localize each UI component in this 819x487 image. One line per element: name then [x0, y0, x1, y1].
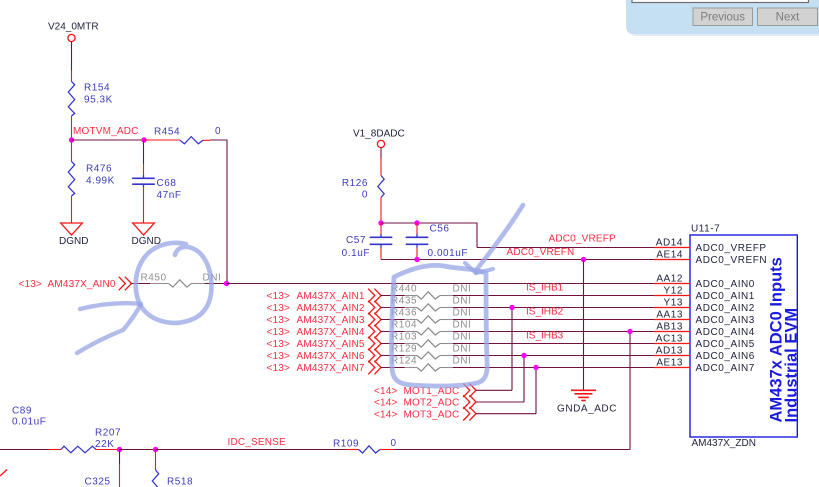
wire AM437X_AIN1 connector to R440 [381, 295, 417, 297]
svg-text:R109: R109 [333, 439, 359, 450]
svg-text:AM437X_AIN1: AM437X_AIN1 [297, 291, 365, 302]
wire AM437X_AIN2 connector to R435 [381, 307, 417, 309]
svg-text:C56: C56 [430, 224, 450, 235]
svg-text:ADC0_AIN5: ADC0_AIN5 [696, 339, 755, 350]
wire AM437X_AIN7 connector to R124 [381, 367, 417, 369]
junction AIN0 [224, 281, 229, 286]
wire R126 to VREF node [380, 198, 382, 224]
wire R518 node to R109 [156, 449, 359, 451]
svg-text:AD14: AD14 [656, 238, 683, 249]
capacitor C56 [406, 223, 468, 260]
svg-text:AB13: AB13 [656, 322, 683, 333]
capacitor C89 label [12, 406, 46, 428]
net label ADC0_VREFN [507, 247, 575, 258]
svg-text:C325: C325 [85, 477, 111, 487]
svg-text:0: 0 [362, 190, 368, 201]
power symbol V24_0MTR [48, 22, 99, 42]
resistor R124 DNI [391, 356, 471, 372]
svg-text:0: 0 [391, 438, 397, 449]
svg-text:AM437X_AIN3: AM437X_AIN3 [297, 315, 365, 326]
wire R103 to IC pin [440, 343, 654, 345]
pin AA12 ADC0_AIN0 [654, 274, 755, 290]
button Previous [693, 8, 753, 26]
svg-text:ADC0_AIN1: ADC0_AIN1 [696, 291, 755, 302]
wire MOTVM_ADC to C68 [143, 140, 145, 178]
wire R124 to IC pin [440, 367, 654, 369]
svg-text:AE14: AE14 [656, 250, 683, 261]
svg-text:ADC0_AIN7: ADC0_AIN7 [696, 363, 755, 374]
resistor R104 DNI [391, 320, 471, 336]
off-page connector AM437X_AIN2 [267, 301, 382, 315]
svg-text:DNI: DNI [453, 284, 472, 295]
wire C68 to DGND [143, 187, 145, 223]
svg-text:DNI: DNI [453, 344, 472, 355]
wire left edge to R207 [0, 449, 61, 451]
svg-text:ADC0_AIN3: ADC0_AIN3 [696, 315, 755, 326]
svg-text:IS_IHB1: IS_IHB1 [526, 283, 564, 294]
wire R207 to C325 node [96, 449, 120, 451]
svg-text:0.1uF: 0.1uF [342, 248, 370, 259]
wire AIN0 connector to R450 [132, 283, 169, 285]
svg-text:Y12: Y12 [664, 286, 683, 297]
svg-text:R126: R126 [342, 178, 368, 189]
capacitor C68 [132, 175, 181, 201]
wire V1_8DADC to R126 [380, 148, 382, 176]
svg-text:R436: R436 [391, 308, 417, 319]
wire VREFN to GNDA_ADC [583, 260, 585, 391]
off-page connector MOT2_ADC [374, 395, 476, 409]
wire AM437X_AIN5 connector to R103 [381, 343, 417, 345]
wire R129 to IC pin [440, 355, 654, 357]
svg-text:Next: Next [776, 11, 800, 23]
wire ADC0_VREFP [477, 223, 654, 248]
svg-text:AE13: AE13 [656, 358, 683, 369]
left edge component fragment [0, 470, 7, 477]
svg-text:ADC0_AIN2: ADC0_AIN2 [696, 303, 755, 314]
resistor R103 DNI [391, 332, 471, 348]
IC name AM437X_ZDN [692, 438, 756, 449]
resistor R454 [154, 126, 221, 144]
wire R454 to AIN0 column [203, 140, 228, 284]
pin AA13 ADC0_AIN3 [654, 310, 755, 326]
svg-text:IS_IHB3: IS_IHB3 [526, 331, 564, 342]
pin AB13 ADC0_AIN4 [654, 322, 755, 338]
annotation long arrow [465, 205, 523, 273]
svg-text:ADC0_VREFP: ADC0_VREFP [549, 234, 617, 245]
wire R435 to IC pin [440, 307, 654, 309]
svg-text:U11-7: U11-7 [691, 224, 720, 235]
svg-text:AM437X_AIN7: AM437X_AIN7 [297, 363, 365, 374]
junction VREFN ground branch [581, 257, 586, 262]
annotation arrow strokes [77, 303, 141, 353]
resistor R129 DNI [391, 344, 471, 360]
off-page connector AM437X_AIN6 [267, 349, 382, 363]
wire R154 to MOTVM_ADC node [71, 116, 73, 140]
wire VREF node horizontal [381, 222, 478, 224]
capacitor C325 [85, 450, 120, 487]
svg-text:0: 0 [215, 126, 221, 137]
find panel background [626, 0, 819, 36]
svg-text:ADC0_VREFN: ADC0_VREFN [507, 247, 575, 258]
svg-text:R103: R103 [391, 332, 417, 343]
svg-text:<13>: <13> [19, 279, 43, 290]
resistor R518 [152, 450, 193, 487]
wire MOT1_ADC [476, 308, 512, 391]
junction R518 node [153, 447, 158, 452]
svg-text:<14>: <14> [374, 386, 398, 397]
svg-text:DNI: DNI [453, 296, 472, 307]
svg-text:Industrial EVM: Industrial EVM [783, 308, 801, 423]
wire AIN0 to pin AA12 [227, 283, 655, 285]
net label ADC0_VREFP [549, 234, 617, 245]
wire R109 to AIN4 column [380, 332, 630, 450]
wire R450 to junction [192, 283, 227, 285]
svg-text:95.3K: 95.3K [84, 95, 113, 106]
svg-text:AM437X_ZDN: AM437X_ZDN [692, 438, 756, 449]
pin AD14 ADC0_VREFP [654, 238, 767, 254]
ground DGND right [132, 223, 161, 247]
svg-text:DNI: DNI [453, 356, 472, 367]
svg-text:R154: R154 [84, 83, 110, 94]
svg-text:C57: C57 [346, 235, 366, 246]
svg-text:V1_8DADC: V1_8DADC [353, 129, 405, 140]
svg-text:AM437X_AIN4: AM437X_AIN4 [297, 327, 365, 338]
svg-text:AA13: AA13 [656, 310, 683, 321]
svg-text:R476: R476 [86, 164, 112, 175]
svg-text:IDC_SENSE: IDC_SENSE [228, 437, 286, 448]
wire C68 node to R454 [144, 139, 180, 141]
svg-text:22K: 22K [95, 439, 114, 450]
net label IS_IHB1 [526, 283, 564, 294]
svg-text:0.001uF: 0.001uF [428, 248, 469, 259]
IC title Industrial EVM [783, 308, 801, 423]
ground DGND left [59, 223, 88, 247]
svg-text:R129: R129 [391, 344, 417, 355]
IC title AM437x ADC0 Inputs [768, 257, 786, 422]
svg-text:R207: R207 [95, 428, 121, 439]
junction MOT1_ADC [509, 305, 514, 310]
net label IS_IHB2 [526, 307, 564, 318]
net label IDC_SENSE [228, 437, 286, 448]
wire MOTVM_ADC horizontal [72, 139, 145, 141]
svg-text:<14>: <14> [374, 409, 398, 420]
pin AE14 ADC0_VREFN [654, 250, 767, 266]
svg-text:ADC0_AIN6: ADC0_AIN6 [696, 351, 755, 362]
wire MOT3_ADC [476, 368, 536, 414]
svg-text:DNI: DNI [453, 332, 472, 343]
pin Y12 ADC0_AIN1 [654, 286, 755, 302]
resistor R476 [68, 162, 115, 197]
svg-text:AM437X_AIN0: AM437X_AIN0 [48, 279, 116, 290]
svg-text:DNI: DNI [453, 308, 472, 319]
svg-text:ADC0_VREFP: ADC0_VREFP [696, 243, 767, 254]
ground GNDA_ADC [557, 390, 617, 414]
svg-text:MOTVM_ADC: MOTVM_ADC [73, 126, 139, 137]
svg-text:R124: R124 [391, 356, 417, 367]
resistor R440 DNI [391, 284, 471, 300]
junction MOT2_ADC [521, 353, 526, 358]
off-page connector AM437X_AIN4 [267, 325, 382, 339]
off-page connector MOT3_ADC [374, 407, 476, 421]
resistor R450 DNI [141, 273, 222, 288]
svg-text:R104: R104 [391, 320, 417, 331]
svg-text:47nF: 47nF [157, 190, 182, 201]
power symbol V1_8DADC [353, 129, 405, 148]
wire AM437X_AIN3 connector to R436 [381, 319, 417, 321]
svg-text:V24_0MTR: V24_0MTR [48, 22, 99, 33]
svg-text:<13>: <13> [267, 303, 291, 314]
junction MOT3_ADC [533, 365, 538, 370]
junction VREF node C57 [378, 220, 383, 225]
svg-text:AM437X_AIN6: AM437X_AIN6 [297, 351, 365, 362]
svg-text:<13>: <13> [267, 363, 291, 374]
wire AM437X_AIN6 connector to R129 [381, 355, 417, 357]
svg-text:0.01uF: 0.01uF [12, 417, 46, 428]
IC U11-7 block outline [690, 224, 797, 438]
svg-text:<13>: <13> [267, 315, 291, 326]
wire V24_0MTR to R154 [71, 42, 73, 82]
resistor R126 [342, 176, 384, 201]
junction VREFN C56 [414, 257, 419, 262]
button Next [758, 8, 818, 26]
svg-text:AM437X_AIN2: AM437X_AIN2 [297, 303, 365, 314]
svg-text:AD13: AD13 [656, 346, 683, 357]
off-page connector AM437X_AIN7 [267, 361, 382, 375]
pin AE13 ADC0_AIN7 [654, 358, 755, 374]
off-page connector AM437X_AIN3 [267, 313, 382, 327]
resistor R435 DNI [391, 296, 471, 312]
wire R104 to IC pin [440, 331, 654, 333]
svg-text:<13>: <13> [267, 327, 291, 338]
svg-text:AM437X_AIN5: AM437X_AIN5 [297, 339, 365, 350]
junction MOTVM_ADC right [141, 137, 146, 142]
svg-text:MOT2_ADC: MOT2_ADC [404, 398, 460, 409]
svg-text:<13>: <13> [267, 351, 291, 362]
svg-text:R454: R454 [154, 127, 180, 138]
svg-text:R450: R450 [141, 273, 167, 284]
svg-text:ADC0_AIN0: ADC0_AIN0 [696, 279, 755, 290]
wire R436 to IC pin [440, 319, 654, 321]
wire R476 to DGND [71, 196, 73, 223]
pin Y13 ADC0_AIN2 [654, 298, 755, 314]
wire MOT2_ADC [476, 356, 524, 403]
wire ADC0_VREFN [381, 259, 654, 261]
wire R440 to IC pin [440, 295, 654, 297]
off-page connector AM437X_AIN1 [267, 289, 382, 303]
wire AM437X_AIN4 connector to R104 [381, 331, 417, 333]
annotation circle around R450 [136, 243, 212, 323]
svg-text:AA12: AA12 [656, 274, 683, 285]
svg-text:<14>: <14> [374, 398, 398, 409]
svg-text:C89: C89 [12, 406, 32, 417]
junction IDC_SENSE AIN4 [627, 329, 632, 334]
svg-text:Previous: Previous [700, 11, 745, 23]
svg-text:Y13: Y13 [664, 298, 683, 309]
resistor R154 [68, 82, 113, 117]
annotation loop around DNI resistors [392, 265, 488, 386]
svg-text:4.99K: 4.99K [86, 176, 115, 187]
svg-text:IS_IHB2: IS_IHB2 [526, 307, 564, 318]
svg-text:AC13: AC13 [656, 334, 683, 345]
svg-text:C68: C68 [157, 178, 177, 189]
resistor R207 [61, 428, 121, 453]
pin AC13 ADC0_AIN5 [654, 334, 755, 350]
resistor R109 [333, 438, 397, 453]
off-page connector AM437X_AIN5 [267, 337, 382, 351]
off-page connector AM437X_AIN0 [19, 277, 132, 291]
svg-text:MOT3_ADC: MOT3_ADC [404, 409, 460, 420]
wire MOTVM_ADC to R476 [71, 140, 73, 162]
svg-text:ADC0_AIN4: ADC0_AIN4 [696, 327, 755, 338]
net label IS_IHB3 [526, 331, 564, 342]
junction C325 node [117, 447, 122, 452]
resistor R436 DNI [391, 308, 471, 324]
svg-text:<13>: <13> [267, 291, 291, 302]
pin AD13 ADC0_AIN6 [654, 346, 755, 362]
junction MOTVM_ADC left [69, 137, 74, 142]
off-page connector MOT1_ADC [374, 384, 476, 398]
svg-text:GNDA_ADC: GNDA_ADC [557, 404, 617, 415]
svg-text:<13>: <13> [267, 339, 291, 350]
wire C325 node to R518 node [120, 449, 156, 451]
net label MOTVM_ADC [73, 126, 139, 137]
junction VREF node C56 [414, 220, 419, 225]
capacitor C57 [342, 223, 393, 260]
find input box [632, 0, 809, 3]
svg-text:DNI: DNI [453, 320, 472, 331]
svg-text:ADC0_VREFN: ADC0_VREFN [696, 255, 768, 266]
svg-text:R518: R518 [167, 477, 193, 487]
svg-text:DGND: DGND [59, 236, 88, 247]
